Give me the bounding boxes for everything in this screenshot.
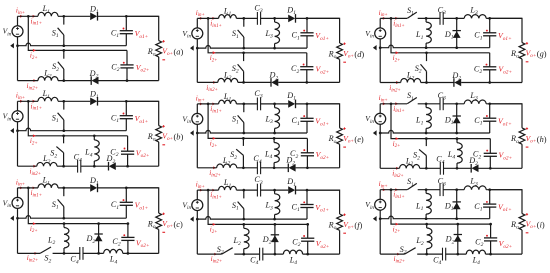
panel (d) wire return rail with crossover hop: [197, 46, 307, 49]
panel (c) wire top rail segment 1: [18, 187, 39, 189]
panel (f) node inductor L2 top: [242, 223, 245, 226]
panel (i) wire diode D2 branch: [457, 224, 459, 254]
svg-text:Vo+: Vo+: [526, 49, 537, 60]
panel (b) diode D1: [90, 97, 97, 106]
panel (i) inductor L1: [426, 190, 431, 219]
panel (c) wire source to top rail: [17, 188, 19, 198]
panel (a) polarity dot C1: [123, 28, 125, 30]
panel (e) label (e): [354, 135, 364, 144]
panel (i) wire top rail segment 4: [486, 189, 522, 191]
panel (b) label S1: [52, 113, 59, 124]
panel (d) switch S1: [238, 18, 244, 48]
panel (b) polarity dot C1: [123, 113, 125, 115]
panel (h) label L4: [447, 150, 456, 161]
panel (e) label V_o1+: [315, 117, 329, 128]
panel (h) resistor R_o: [519, 128, 525, 144]
panel (c) current arrow i_in1+: [33, 187, 36, 190]
svg-text:Vin: Vin: [3, 198, 12, 209]
panel (h) wire source to top rail: [379, 104, 381, 114]
panel (c) label L1: [42, 176, 51, 187]
panel (e) label R_o: [328, 134, 337, 145]
panel (c) label i_in2+: [27, 254, 39, 263]
panel (c) wire bottom rail segment 3: [83, 252, 104, 254]
panel (h) capacitor C3: [440, 97, 443, 110]
panel (h) current arrow i_in2+: [396, 167, 399, 170]
panel (d) wire bottom rail segment 2: [238, 81, 271, 83]
svg-text:iin1+: iin1+: [393, 19, 405, 28]
panel (g) wire top rail to load: [490, 18, 522, 42]
panel (g) wire capacitor C2 branch: [489, 53, 491, 83]
panel (h) label V_in: [365, 114, 374, 125]
panel (a) wire source to top rail: [17, 16, 19, 26]
panel (i) wire load to bottom rail: [521, 230, 523, 254]
panel (g) current arrow i_2+: [396, 51, 399, 54]
panel (g) wire top rail segment 1: [380, 17, 407, 19]
panel (f) voltage source V_in: [192, 200, 203, 211]
panel (h) node diode D1 top: [455, 102, 458, 105]
panel (d) inductor L1: [219, 15, 237, 19]
panel (f) node capacitor C2 top: [306, 223, 309, 226]
panel (i) label S1: [407, 177, 414, 188]
panel (a) node switch S1 top: [62, 15, 65, 18]
panel (g) node input top junction: [390, 17, 393, 20]
panel (g) label S2: [415, 64, 422, 75]
panel (c) switch S1: [58, 188, 64, 218]
panel (h) label C1: [474, 116, 482, 127]
panel (f) label D2: [262, 235, 272, 246]
panel (a) inductor L1: [38, 12, 58, 16]
svg-text:C2: C2: [112, 237, 120, 248]
panel (g) inductor L2: [401, 78, 421, 82]
svg-text:(i): (i): [537, 221, 545, 230]
panel (a) current arrow i_in1+: [33, 15, 36, 18]
panel (e) return arrow marker: [190, 130, 194, 135]
panel (h) wire top rail segment 3: [443, 103, 464, 105]
svg-text:D1: D1: [286, 91, 296, 102]
panel (a) wire capacitor C2 branch: [126, 50, 128, 80]
panel (c) label S2: [44, 254, 51, 265]
panel (c) label C4: [70, 255, 78, 266]
panel (e) inductor L4: [274, 138, 279, 167]
svg-text:iin+: iin+: [196, 9, 205, 18]
panel (c) label V_o2+: [136, 238, 150, 249]
panel (c) switch S2: [40, 247, 51, 253]
panel (c) wire source to bottom rail: [17, 208, 19, 253]
panel (f) current arrow i_2+: [213, 223, 216, 226]
panel (g) voltage source V_in: [375, 28, 386, 39]
panel (c) label C2: [112, 237, 120, 248]
panel (e) wire source to bottom rail: [196, 124, 198, 167]
panel (b) node source-return junction: [16, 129, 19, 132]
panel (f) label C1: [292, 202, 300, 213]
panel (c) node diode D2 bottom: [97, 252, 100, 255]
panel (g) label (g): [537, 50, 547, 59]
svg-text:C1: C1: [292, 202, 300, 213]
panel (e) wire top rail segment 2: [236, 103, 258, 105]
svg-text:L2: L2: [415, 236, 424, 247]
panel (f) capacitor C3: [257, 184, 260, 197]
panel (b) label D2: [106, 154, 116, 165]
svg-text:C1: C1: [111, 200, 119, 211]
panel (d) label (d): [354, 50, 364, 59]
panel (d) resistor R_o: [337, 43, 343, 59]
panel (f) return arrow marker: [190, 216, 194, 221]
svg-text:Vo2+: Vo2+: [499, 151, 513, 162]
panel (e) label S2: [230, 150, 237, 161]
svg-text:iin2+: iin2+: [389, 84, 401, 93]
panel (f) label V_in: [182, 201, 191, 212]
panel (i) label C1: [474, 202, 482, 213]
panel (g) wire top rail segment 2: [418, 17, 440, 19]
svg-text:Vo1+: Vo1+: [135, 29, 149, 40]
panel (c) resistor R_o: [156, 213, 162, 229]
panel (i) wire diode D1 branch: [456, 190, 458, 219]
svg-text:(d): (d): [354, 50, 364, 59]
panel (a) node switch S2 bottom: [62, 79, 65, 82]
panel (g) node diode D1 top: [455, 17, 458, 20]
panel (a) label V_o2+: [136, 63, 150, 74]
panel (i) label L2: [415, 236, 424, 247]
panel (c) label V_o1+: [135, 201, 149, 212]
svg-text:D1: D1: [444, 115, 454, 126]
panel (b) wire bottom rail segment 1: [18, 165, 37, 167]
panel (e) polarity dot C2: [303, 149, 305, 151]
panel (g) wire bottom rail segment 1: [380, 82, 401, 84]
panel (d) switch S2: [238, 53, 244, 83]
panel (f) wire bottom rail segment 3: [262, 253, 283, 255]
panel (c) label R_o: [147, 219, 156, 230]
panel (i) current arrow i_in1+: [395, 188, 398, 191]
panel (i) label C4: [433, 255, 441, 266]
panel (g) wire top rail segment 3: [443, 17, 464, 19]
panel (c) label (c): [174, 220, 184, 229]
svg-text:Vo2+: Vo2+: [316, 239, 330, 250]
panel (b) wire bottom rail segment 2: [57, 165, 78, 167]
svg-text:iin2+: iin2+: [27, 254, 39, 263]
panel (a) node source-return junction: [16, 44, 19, 47]
panel (b) node switch S2 bottom: [62, 165, 65, 168]
panel (d) label V_o+: [343, 49, 354, 60]
panel (a) label V_o1+: [135, 29, 149, 40]
panel (e) switch S1: [238, 104, 244, 133]
panel (i) label i_in1+: [393, 191, 405, 200]
panel (b) inductor L2: [37, 162, 57, 166]
panel (b) wire top rail segment 3: [98, 100, 159, 102]
panel (b) inductor L1: [38, 97, 58, 101]
panel (e) label C1: [292, 116, 300, 127]
panel (g) wire load to bottom rail: [521, 59, 523, 83]
panel (h) label C4: [436, 155, 444, 166]
panel (b) wire bottom rail segment 4: [116, 165, 159, 167]
panel (d) polarity minus V_o: [343, 61, 346, 63]
svg-text:S1: S1: [407, 91, 414, 102]
panel (i) wire return rail with crossover hop: [380, 216, 490, 219]
panel (c) label V_o+: [162, 219, 173, 230]
panel (h) node capacitor C1 top: [488, 102, 491, 105]
panel (h) label i_in+: [379, 94, 388, 103]
panel (g) label S1: [407, 6, 414, 17]
svg-text:Vo2+: Vo2+: [136, 238, 150, 249]
panel (d) wire bottom rail segment 3: [278, 81, 339, 83]
panel (d) label D2: [268, 71, 278, 82]
panel (g) label i_in1+: [393, 19, 405, 28]
panel (a) wire capacitor C1 branch: [125, 16, 127, 45]
panel (f) label L1: [223, 178, 232, 189]
panel (d) wire top rail segment 4: [295, 17, 339, 19]
svg-text:D2: D2: [89, 69, 99, 80]
panel (c) label L4: [109, 255, 118, 266]
panel (a) polarity dot C2: [123, 62, 125, 64]
panel (g) wire bottom rail segment 2: [421, 82, 454, 84]
svg-text:L2: L2: [406, 71, 415, 82]
panel (c) wire load to bottom rail: [158, 229, 160, 253]
panel (h) node capacitor C2 bottom: [489, 167, 492, 170]
panel (a) label L2: [43, 69, 52, 80]
panel (i) node capacitor C1 top: [488, 188, 491, 191]
panel (a) label S2: [52, 62, 59, 73]
panel (a) label i_in+: [16, 7, 25, 16]
panel (h) current arrow i_in+: [383, 102, 386, 105]
panel (c) polarity dot C1: [123, 199, 125, 201]
panel (b) wire capacitor C1 branch: [125, 101, 127, 130]
panel (f) node switch S1 top: [242, 189, 245, 192]
panel (g) switch S2: [421, 53, 427, 83]
svg-text:L4: L4: [447, 150, 456, 161]
panel (a) label (a): [174, 48, 184, 57]
panel (g) label V_o+: [526, 49, 537, 60]
panel (f) wire capacitor C2 branch: [307, 224, 309, 254]
panel (i) wire bottom rail segment 4: [486, 253, 523, 255]
panel (g) label C2: [474, 64, 482, 75]
panel (e) label D2: [285, 156, 295, 167]
panel (b) wire load to bottom rail: [158, 142, 160, 166]
panel (b) node inductor L4 bottom: [93, 165, 96, 168]
panel (h) diode D1: [453, 116, 461, 123]
panel (e) wire return rail with crossover hop: [197, 130, 307, 133]
panel (h) wire capacitor C2 branch: [489, 139, 491, 169]
panel (h) inductor L2: [400, 165, 420, 169]
panel (e) wire bottom rail segment 2: [237, 167, 258, 169]
panel (b) current arrow i_in+: [20, 100, 23, 103]
panel (i) label L4: [472, 255, 481, 266]
panel (d) label D1: [286, 5, 296, 16]
panel (f) wire source to bottom rail: [196, 211, 198, 255]
panel (e) capacitor C3: [257, 98, 260, 111]
panel (c) voltage source V_in: [12, 197, 23, 208]
svg-text:Ro: Ro: [510, 49, 519, 60]
panel (f) label S1: [232, 201, 239, 212]
panel (f) node inductor L3 bottom: [273, 218, 276, 221]
panel (c) label i_in1+: [31, 189, 43, 198]
svg-text:D1: D1: [444, 30, 454, 41]
panel (e) node switch S1 top: [242, 103, 245, 106]
panel (h) wire source to bottom rail: [379, 124, 381, 168]
panel (f) switch S2: [222, 248, 233, 254]
svg-text:C3: C3: [254, 4, 262, 15]
panel (a) node switch S1 bottom: [62, 44, 65, 47]
panel (d) current arrow i_in+: [200, 17, 203, 20]
svg-text:L3: L3: [264, 201, 273, 212]
panel (e) label D1: [286, 91, 296, 102]
panel (b) node capacitor C1 top: [125, 100, 128, 103]
panel (h) polarity dot C1: [486, 115, 488, 117]
svg-text:C4: C4: [70, 255, 78, 266]
panel (a) wire return rail with crossover hop: [18, 43, 127, 46]
panel (d) node source-return junction: [196, 47, 199, 50]
panel (i) label V_o1+: [498, 203, 512, 214]
svg-text:iin+: iin+: [196, 94, 205, 103]
panel (f) node input top junction: [207, 189, 210, 192]
panel (h) label L1: [415, 116, 424, 127]
panel (b) wire input branch vertical: [28, 101, 127, 136]
svg-text:Ro: Ro: [510, 220, 519, 231]
panel (b) wire top rail segment 1: [18, 100, 39, 102]
panel (d) wire bottom rail segment 1: [197, 81, 218, 83]
panel (e) node inductor L3 top: [273, 103, 276, 106]
svg-text:L4: L4: [109, 255, 118, 266]
panel (b) capacitor C1: [120, 116, 133, 119]
svg-text:L2: L2: [232, 236, 241, 247]
panel (e) current arrow i_in+: [200, 103, 203, 106]
panel (f) current arrow i_in1+: [212, 189, 215, 192]
panel (b) label S2: [50, 149, 57, 160]
panel (b) wire source to top rail: [17, 101, 19, 111]
svg-text:(g): (g): [537, 50, 547, 59]
panel (d) label i_in2+: [206, 84, 218, 93]
svg-text:Vin: Vin: [182, 201, 191, 212]
panel (a) label V_in: [3, 27, 12, 38]
panel (e) label C3: [254, 89, 262, 100]
svg-text:i2+: i2+: [30, 137, 38, 146]
panel (f) polarity dot C2: [303, 235, 305, 237]
panel (d) wire capacitor C2 branch: [306, 53, 308, 83]
svg-text:C2: C2: [474, 64, 482, 75]
panel (e) label S1: [232, 115, 239, 126]
svg-text:Vo1+: Vo1+: [315, 117, 329, 128]
panel (g) label L2: [406, 71, 415, 82]
panel (g) resistor R_o: [519, 43, 525, 59]
panel (c) wire top rail to load: [126, 188, 158, 213]
svg-text:(h): (h): [537, 135, 547, 144]
panel (i) label L3: [469, 177, 478, 188]
svg-text:Ro: Ro: [147, 219, 156, 230]
panel (e) capacitor C4: [257, 161, 260, 174]
svg-text:Vo1+: Vo1+: [498, 31, 512, 42]
panel (c) label D2: [85, 234, 95, 245]
panel (d) polarity dot C2: [303, 64, 305, 66]
panel (g) diode D1: [453, 31, 461, 38]
panel (c) current arrow i_2+: [33, 222, 36, 225]
panel (a) current arrow i_in2+: [33, 79, 36, 82]
panel (c) label C1: [111, 200, 119, 211]
panel (c) capacitor C2: [121, 237, 134, 240]
panel (h) capacitor C2: [484, 153, 497, 156]
panel (d) polarity dot C1: [303, 30, 305, 32]
panel (i) inductor L2: [427, 224, 432, 254]
panel (d) label L3: [264, 29, 273, 40]
panel (b) polarity plus V_o: [162, 125, 164, 127]
panel (i) label S2: [400, 245, 407, 256]
panel (a) label L1: [42, 4, 51, 15]
panel (a) capacitor C1: [120, 31, 133, 34]
svg-text:(c): (c): [174, 220, 184, 229]
panel (a) label S1: [52, 28, 59, 39]
panel (f) label D1: [286, 177, 296, 188]
panel (a) wire top rail segment 1: [18, 15, 39, 17]
panel (g) label R_o: [510, 49, 519, 60]
panel (f) capacitor C2: [301, 238, 314, 241]
panel (i) label C3: [438, 177, 446, 188]
panel (d) inductor L2: [218, 78, 238, 82]
panel (a) polarity minus V_o: [162, 59, 165, 61]
panel (d) capacitor C1: [300, 33, 313, 36]
panel (h) wire load to bottom rail: [521, 144, 523, 168]
panel (h) current arrow i_in1+: [395, 102, 398, 105]
panel (g) wire input branch vertical: [391, 18, 490, 52]
svg-text:C1: C1: [292, 31, 300, 42]
svg-text:C3: C3: [254, 89, 262, 100]
panel (h) return arrow marker: [373, 130, 377, 135]
panel (g) polarity minus V_o: [526, 61, 529, 63]
panel (d) label V_in: [182, 29, 191, 40]
panel (a) diode D1: [90, 12, 97, 21]
panel (d) node inductor L3 bottom: [273, 47, 276, 50]
panel (h) node inductor L4 bottom: [456, 167, 459, 170]
panel (d) current arrow i_2+: [213, 51, 216, 54]
panel (f) capacitor C1: [300, 205, 313, 208]
panel (h) wire top rail to load: [490, 104, 522, 128]
panel (a) resistor R_o: [156, 41, 162, 57]
panel (e) wire bottom rail segment 3: [260, 167, 288, 169]
panel (i) polarity dot C2: [486, 235, 488, 237]
svg-text:C4: C4: [433, 255, 441, 266]
panel (f) label V_o1+: [315, 203, 329, 214]
panel (h) node source-return junction: [379, 132, 382, 135]
panel (d) label L1: [223, 6, 232, 17]
svg-text:iin1+: iin1+: [210, 191, 222, 200]
panel (d) node switch S2 top: [242, 51, 245, 54]
panel (c) polarity plus V_o: [162, 213, 164, 215]
panel (h) diode D2: [471, 164, 478, 173]
svg-text:iin1+: iin1+: [393, 191, 405, 200]
svg-text:L1: L1: [415, 30, 424, 41]
panel (i) wire bottom rail segment 1: [380, 253, 404, 255]
panel (f) node switch S1 bottom: [242, 218, 245, 221]
panel (i) label C2: [475, 238, 483, 249]
svg-text:Vo2+: Vo2+: [498, 65, 512, 76]
panel (b) label L1: [42, 89, 51, 100]
panel (e) node switch S2 top: [242, 137, 245, 140]
svg-text:L1: L1: [415, 116, 424, 127]
svg-text:iin1+: iin1+: [210, 105, 222, 114]
svg-text:L2: L2: [43, 69, 52, 80]
panel (d) node switch S1 bottom: [242, 47, 245, 50]
panel (f) label V_o2+: [316, 239, 330, 250]
svg-text:Vo1+: Vo1+: [498, 117, 512, 128]
panel (e) label V_o2+: [316, 150, 330, 161]
panel (g) label V_o1+: [498, 31, 512, 42]
panel (b) capacitor C4: [78, 160, 81, 173]
panel (b) label C2: [110, 148, 118, 159]
panel (g) label i_in+: [379, 9, 388, 18]
panel (b) label C4: [74, 153, 82, 164]
svg-text:i2+: i2+: [30, 52, 38, 61]
panel (d) current arrow i_in2+: [213, 81, 216, 84]
panel (i) node inductor L1 top: [425, 188, 428, 191]
panel (f) node capacitor C2 bottom: [306, 253, 309, 256]
panel (h) wire top rail segment 4: [486, 103, 522, 105]
svg-text:C2: C2: [475, 238, 483, 249]
